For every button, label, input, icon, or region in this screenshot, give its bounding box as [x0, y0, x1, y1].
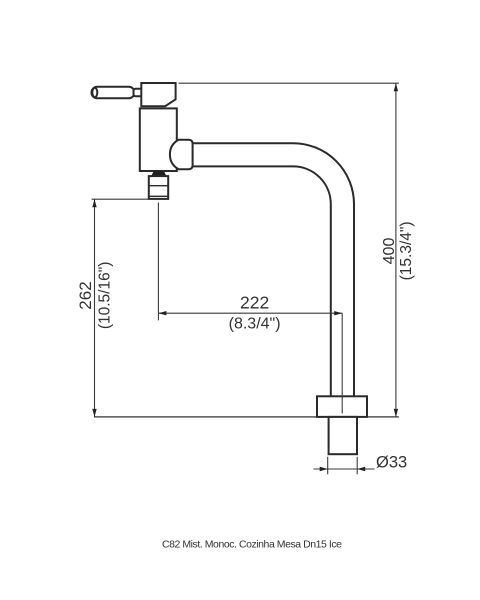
dimension diameter 33 arrow left-pointing — [357, 467, 365, 471]
aerator ridge line 1 — [149, 185, 168, 187]
dimension 222 line — [158, 312, 342, 314]
dimension 262 arrow down — [92, 409, 96, 417]
aerator — [149, 176, 168, 199]
extension line aerator center — [157, 203, 159, 321]
dimension 222 arrow left — [158, 311, 166, 315]
extension line shank right — [356, 457, 358, 475]
counter reference line right — [367, 416, 399, 418]
body (valve column) — [140, 108, 177, 171]
dimension 222 arrow right — [334, 311, 342, 315]
threaded shank — [329, 417, 357, 454]
extension line at aerator outlet — [92, 198, 149, 200]
spout ball joint — [170, 140, 193, 169]
svg-text:262: 262 — [76, 281, 95, 309]
svg-text:Ø33: Ø33 — [376, 453, 407, 471]
dimension 262 line — [94, 199, 96, 417]
svg-text:C82 Mist. Monoc. Cozinha Mesa: C82 Mist. Monoc. Cozinha Mesa Dn15 Ice — [162, 538, 342, 550]
spout tube top line and outer bend — [193, 143, 354, 396]
dimension 400 line — [395, 83, 397, 417]
spout tube bottom line and inner bend — [193, 166, 331, 396]
extension line shank left — [327, 457, 329, 475]
dimension diameter 33 line — [314, 468, 375, 470]
svg-text:400: 400 — [381, 238, 398, 265]
extension line from head top to right — [179, 82, 399, 84]
handle lever — [92, 87, 135, 98]
dimension diameter 33 arrow right-pointing — [320, 467, 328, 471]
handle stem — [134, 89, 144, 97]
svg-text:222: 222 — [240, 293, 269, 313]
counter reference line left — [94, 416, 317, 418]
svg-text:(10.5/16"): (10.5/16") — [97, 262, 114, 330]
dimension 262 arrow up — [92, 199, 96, 207]
dimension 400 arrow up — [394, 83, 398, 91]
mounting flange — [317, 396, 367, 417]
aerator ridge line 2 — [149, 195, 168, 197]
aerator connector (dark trapezoid) — [152, 172, 166, 176]
svg-text:(15.3/4"): (15.3/4") — [398, 221, 415, 280]
svg-text:(8.3/4"): (8.3/4") — [229, 316, 281, 333]
head block (valve cap with cut corner) — [141, 83, 175, 106]
dimension 400 arrow down — [394, 409, 398, 417]
extension line tube center — [341, 313, 343, 413]
handle end cap — [92, 88, 97, 97]
